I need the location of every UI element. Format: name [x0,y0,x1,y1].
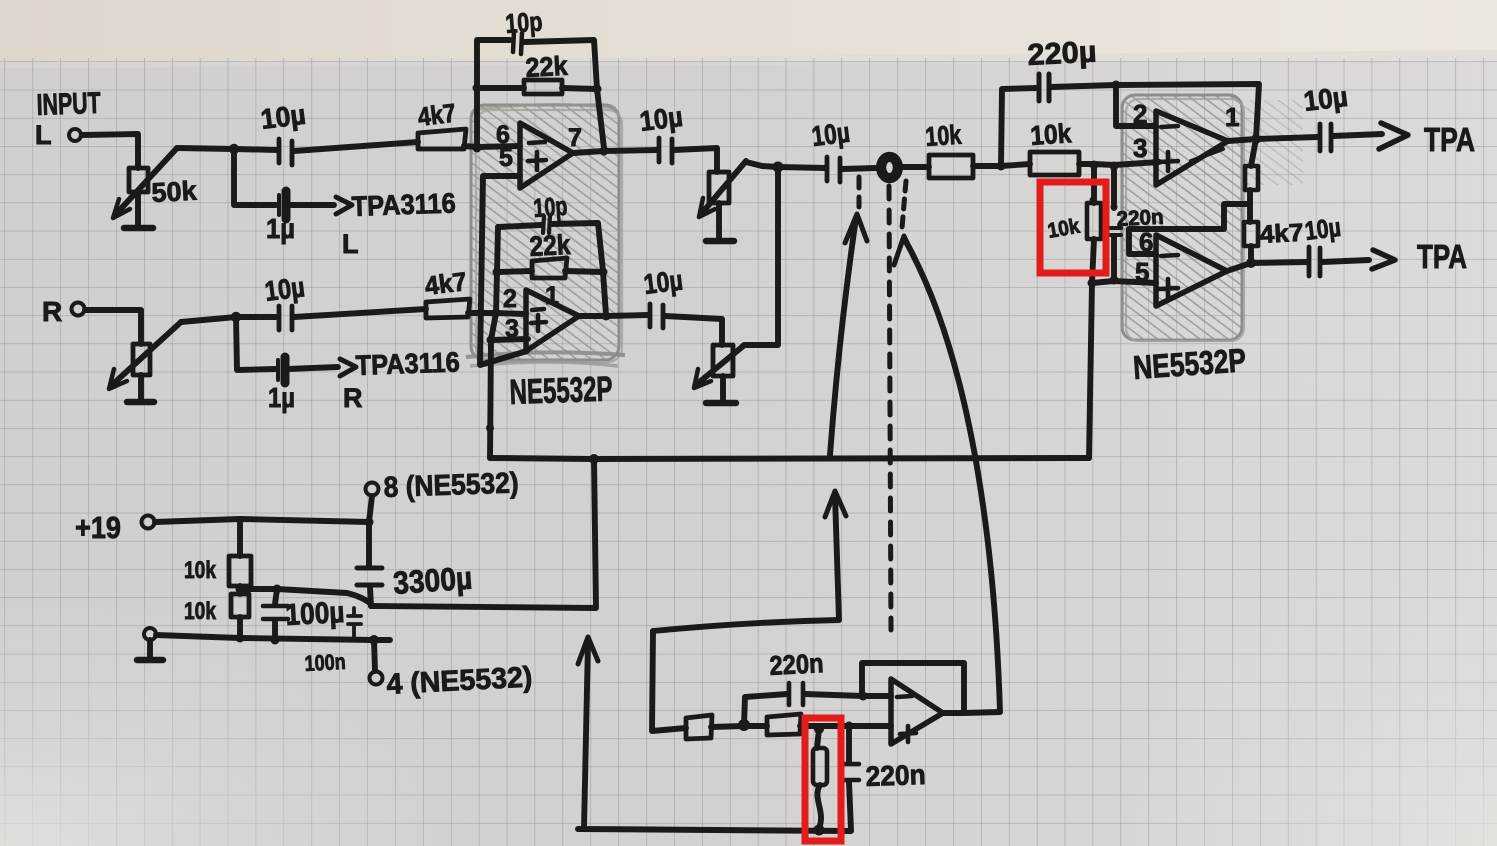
svg-text:TPA: TPA [1424,121,1475,158]
resistor 4k7 L [418,129,466,149]
half-rail wire [240,589,371,604]
resistor 10k red-boxed branch [1091,165,1097,203]
node [1110,162,1119,171]
minus U2B [1161,255,1178,256]
wire [464,146,477,147]
arrow head TPA3116 L [336,197,352,214]
svg-text:4k7: 4k7 [416,98,457,132]
top light band (above paper grid) [0,0,1497,62]
capacitor 10u R plates [279,306,292,330]
feedback top bus block2 [1116,84,1259,139]
svg-text:4k7: 4k7 [1259,219,1304,249]
arrow pot-3 (U3 output up to ring) [905,240,1000,712]
svg-text:10k: 10k [1029,118,1073,151]
feedback chain down from output U2A [1251,139,1256,166]
resistor S1 body [686,715,712,739]
feedback loop wire (10p) [477,40,510,146]
plus U1A [528,152,546,170]
node [845,722,854,731]
node [369,635,379,645]
wire [711,726,744,727]
capacitor 10u TPA2 plates [1309,247,1320,276]
plus U1B [531,315,546,331]
capacitor 10u mix plates [827,157,840,182]
svg-text:4k7: 4k7 [423,266,468,301]
minus U2A [1161,126,1178,127]
terminal 8 (NE5532) [366,483,379,496]
resistor 4k7 R [426,299,470,318]
arrow pot-2 (loop to bus) [835,495,839,620]
pen tail inside U2A [1191,149,1223,161]
trimmer L wiper arrow [702,161,746,213]
node (inverting input 2) [492,309,501,318]
plus U3 [900,726,916,742]
wire [294,142,418,151]
resistor small body [1245,166,1258,190]
svg-text:10µ: 10µ [1302,81,1349,117]
trimmer L body [709,172,729,203]
tall arrow from bottom bus up to rail [584,642,588,828]
node [738,719,750,731]
wire [552,223,603,271]
wire to pin 5 [1092,281,1156,283]
wire down to 10k A [237,519,243,556]
wire [369,496,372,522]
ground bar [706,238,734,245]
wire [1111,237,1117,280]
red highlight box 1 (10k) [1040,182,1106,273]
wire [468,310,496,316]
bottom bus [578,829,851,831]
input terminal L [69,129,81,141]
pin 2 wire [1116,85,1156,126]
feedback loop wire (10p 2) [498,225,541,227]
svg-text:L: L [35,120,52,150]
pencil shading box around NE5532P #1 [466,104,625,366]
rail to bus [371,459,596,608]
svg-text:10µ: 10µ [810,117,851,152]
svg-text:3300µ: 3300µ [392,560,473,601]
minus U3 [897,696,912,697]
capacitor 3300u wire [366,522,372,566]
wire [1129,190,1250,254]
capacitor 10u out R plates [650,304,663,328]
capacitor 100u plates [263,606,288,619]
node [599,268,608,277]
volume pot node (bold ring) [881,157,898,178]
resistor S3 red-boxed: top node [814,724,824,734]
svg-text:R: R [343,383,363,413]
capacitor 1u R plates [276,360,280,380]
short dashed segment near mix cap [857,177,862,207]
ground bar [706,400,736,407]
potentiometer R wiper arrow [113,322,181,384]
node [273,585,282,594]
capacitor 10u L plates [279,139,292,165]
wire from ring to 10k [902,164,929,170]
wire to pin 3 [1079,162,1159,165]
wire [272,621,278,640]
resistor 10k a body [929,155,973,178]
arrow head TPA3116 R [340,359,356,376]
node [814,825,825,836]
resistor 4k7 body [1244,222,1258,246]
output wire U2A [1228,137,1318,141]
wire [973,164,1030,166]
resistor S3 body [813,748,827,785]
+19 terminal [142,516,155,529]
svg-text:5: 5 [1135,257,1149,287]
red highlight box 2 (resistor S3) [805,718,841,841]
svg-text:10p: 10p [532,191,568,223]
trimmer R body [713,345,733,376]
wiper wire to mix node [746,162,825,168]
lower wire through resistor S2 [744,723,767,729]
wire to trimmer R [665,316,722,345]
resistor 22k wires [477,88,597,89]
potentiometer 50k body [129,168,148,192]
ground symbol [147,640,153,657]
svg-text:1µ: 1µ [266,213,295,244]
curvy wire [817,785,821,828]
svg-text:10k: 10k [184,557,217,584]
wire [288,367,338,369]
svg-text:10µ: 10µ [259,99,307,135]
svg-text:6: 6 [1139,227,1153,257]
node [493,268,502,277]
op-amp input signs [528,126,1178,742]
wire [1092,239,1094,283]
wire to volume ring [842,168,876,169]
capacitor 100n stubs [352,608,356,637]
resistor 10k body [1087,203,1101,239]
output wire U3 [943,712,1000,713]
ground wire [156,635,390,640]
capacitor 3300u plates [357,568,382,585]
output wire [573,150,657,153]
node [236,585,245,594]
node [589,454,599,464]
wire [85,310,141,344]
arrow to TPA 1 [1333,134,1382,136]
wire [294,309,426,317]
wiper R wire to mix bus [742,167,778,347]
node [487,336,496,345]
wire [805,694,863,696]
capacitor 220u branch wire [1001,88,1037,166]
node (inverting input) [473,144,482,153]
pin 5 wire [480,176,527,365]
wire [817,729,819,748]
wire to pin 6 [477,146,520,147]
svg-text:7: 7 [568,124,582,152]
capacitor 100u wire [275,589,277,604]
wire [849,782,851,830]
svg-text:TPA3116: TPA3116 [355,346,460,381]
capacitor 1u L plates [277,195,281,215]
wire branch to 1u [234,149,276,205]
svg-text:TPA3116: TPA3116 [351,187,456,222]
resistor 22k body [524,80,562,94]
wire [289,202,334,208]
capacitor 220n A plates [789,683,803,705]
wire [177,148,277,150]
svg-text:10k: 10k [184,598,217,625]
svg-text:NE5532P: NE5532P [509,369,613,412]
pin 3 wire [491,339,528,340]
ground bar [127,399,154,406]
svg-text:INPUT: INPUT [36,87,101,122]
node [236,634,245,643]
wire up to 220n A [744,694,787,725]
output node U2A [1251,134,1261,144]
svg-text:1: 1 [1225,102,1239,132]
resistor 22k 2 body [532,258,567,278]
node [473,84,482,93]
left loop left+bottom [652,631,686,731]
corner light patches [0,600,500,846]
svg-text:2: 2 [1133,99,1147,129]
svg-text:100µ: 100µ [285,596,346,632]
wire branch to 1u R [236,317,275,370]
potentiometer R body [133,344,150,375]
svg-text:22k: 22k [525,51,569,83]
svg-text:10µ: 10µ [638,101,684,137]
op-amp U1A triangle [520,123,573,188]
svg-text:+19: +19 [75,510,121,545]
capacitor 220n vertical branch [1111,166,1117,208]
short dashed segment right of ring [902,181,906,228]
op-amp U2A triangle [1156,111,1228,185]
svg-text:10p: 10p [504,6,543,39]
svg-text:1: 1 [545,282,559,310]
wire [138,375,144,400]
wire [1248,246,1254,263]
plus U2B [1159,279,1178,298]
node [593,85,602,94]
op-amp U2B triangle [1156,235,1227,306]
wire [237,617,243,638]
node [859,692,868,701]
wire to 4k7 [1247,204,1253,222]
node [1090,161,1099,170]
svg-text:TPA: TPA [1417,238,1467,275]
potentiometer 50k wiper arrow [117,148,177,213]
ground terminal [144,628,156,640]
op-amp U3 triangle [891,679,943,744]
op-amp U1B triangle [526,290,579,351]
resistor S2 body [767,714,801,735]
wire [370,587,371,606]
svg-text:5: 5 [499,144,513,172]
wire [237,586,243,594]
resistor 22k 2 wires [497,271,603,272]
wire to trimmer L [674,148,717,172]
capacitor 220n B plates [840,764,859,780]
node 220u tap [997,162,1006,171]
output node [600,147,609,156]
svg-text:3: 3 [505,315,519,343]
svg-text:L: L [342,229,359,259]
+19 wire [155,519,369,522]
svg-text:10k: 10k [924,119,963,151]
arrow pot-1 (bus to ring) [830,218,856,455]
ground bar [124,225,153,232]
wire [800,723,891,729]
capacitor 220u plates [1039,74,1049,101]
svg-text:3: 3 [1133,133,1147,163]
svg-text:NE5532P: NE5532P [1132,341,1247,386]
wire to pin - [863,693,891,699]
minus U1A [529,142,545,143]
svg-text:10µ: 10µ [263,271,306,307]
wire [82,134,138,168]
trimmer R wiper arrow [697,347,742,384]
svg-text:10µ: 10µ [642,264,684,300]
input terminal R [72,303,85,316]
capacitor 10u out L plates [659,138,672,163]
wire loop right vertical 2 [603,272,606,315]
node [229,144,239,154]
svg-text:2: 2 [503,285,517,313]
pencil shading box around NE5532P #2 [1122,95,1303,341]
capacitor 220n B branch [846,726,852,762]
svg-text:1µ: 1µ [268,382,295,413]
resistor 10k B body [231,594,249,617]
capacitor 10u TPA1 plates [1320,124,1331,151]
node [271,636,280,645]
capacitor 220n plates [1107,228,1121,235]
trimmer R lower wire [720,376,726,400]
svg-text:8 (NE5532): 8 (NE5532) [383,467,519,504]
left loop top wire [653,620,839,631]
left feedback vertical [490,227,498,458]
wire [524,40,604,148]
plus U2A [1159,152,1178,171]
main virtual-ground bus [490,458,1089,459]
svg-text:R: R [42,296,62,327]
wire 220u to bus [1051,85,1116,87]
svg-text:22k: 22k [529,229,572,262]
node [231,312,241,322]
svg-text:220µ: 220µ [1027,35,1098,72]
svg-text:220n: 220n [769,648,824,681]
dashed wiper line [889,186,891,630]
feedback loop U3 [862,663,964,712]
capacitor 10p plates [513,31,522,54]
wire to pin 2 [496,313,526,314]
trimmer L lower wire [716,203,722,238]
svg-text:50k: 50k [151,176,198,208]
wire [181,317,276,322]
virtual ground bus right vertical [1089,283,1092,458]
node [365,518,374,527]
svg-text:100n: 100n [304,649,346,676]
resistor 10k b body [1030,152,1079,175]
output node 2 [602,312,611,321]
output wire U2B [1227,262,1307,271]
arrow to TPA 2 [1322,260,1369,262]
capacitor 10p 2 plates [543,216,550,233]
terminal 4 (NE5532) [374,640,375,671]
capacitor 100n plates [348,616,361,624]
wire [135,192,141,226]
svg-text:10µ: 10µ [1303,212,1342,246]
node [1112,81,1121,90]
node small [486,424,494,432]
node [773,162,784,173]
resistor 10k A body [229,556,251,586]
minus U1B [532,309,544,310]
output wire 2 [579,315,648,316]
svg-text:220n: 220n [865,759,926,792]
